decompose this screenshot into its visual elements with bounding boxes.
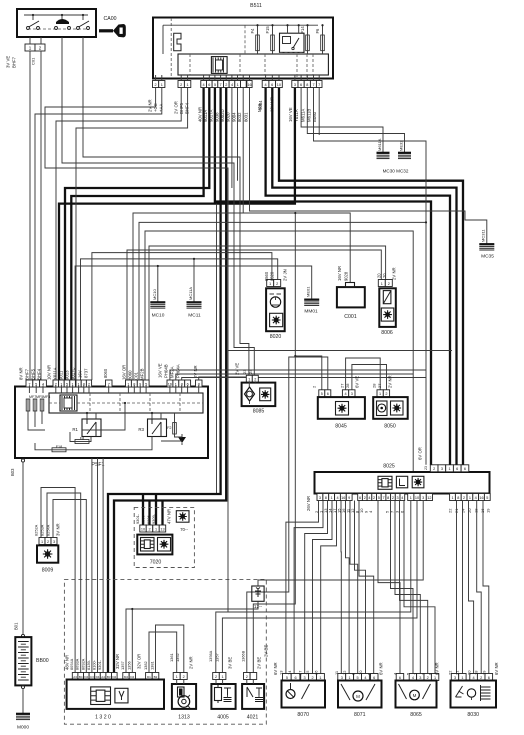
svg-text:9300-: 9300- (140, 513, 145, 524)
svg-text:1313: 1313 (178, 715, 190, 721)
svg-text:6V NR: 6V NR (273, 662, 278, 675)
svg-text:1: 1 (222, 675, 224, 679)
svg-text:8031: 8031 (243, 112, 248, 122)
svg-text:12: 12 (427, 496, 431, 500)
svg-text:M611A: M611A (377, 138, 382, 151)
svg-text:8054A: 8054A (69, 658, 74, 670)
svg-text:M000: M000 (17, 725, 29, 731)
svg-text:5: 5 (356, 676, 358, 680)
svg-text:2: 2 (246, 675, 248, 679)
svg-text:B01: B01 (14, 622, 19, 630)
svg-text:24: 24 (248, 369, 253, 374)
svg-text:1: 1 (434, 676, 436, 680)
svg-text:A4: A4 (101, 675, 105, 679)
svg-text:8050: 8050 (384, 424, 396, 430)
svg-text:70--: 70-- (180, 527, 188, 532)
svg-text:1: 1 (161, 83, 163, 87)
svg-text:2: 2 (463, 496, 465, 500)
svg-text:C01: C01 (31, 57, 36, 65)
svg-text:D4: D4 (96, 675, 100, 679)
svg-text:3: 3 (304, 676, 306, 680)
svg-text:1361: 1361 (169, 653, 174, 662)
svg-text:1: 1 (451, 496, 453, 500)
svg-text:B03: B03 (10, 468, 15, 476)
svg-text:3: 3 (441, 467, 443, 471)
svg-text:24: 24 (461, 508, 466, 513)
svg-text:9011: 9011 (59, 370, 64, 380)
svg-text:6: 6 (295, 676, 297, 680)
svg-text:3: 3 (422, 496, 424, 500)
svg-text:4: 4 (364, 676, 366, 680)
svg-text:2: 2 (480, 676, 482, 680)
svg-text:2V NR: 2V NR (148, 99, 153, 112)
svg-text:1: 1 (237, 83, 239, 87)
svg-text:27: 27 (340, 383, 345, 388)
svg-text:ME01: ME01 (306, 286, 311, 297)
svg-text:M: M (356, 694, 360, 699)
svg-text:8520: 8520 (270, 271, 275, 281)
svg-text:10: 10 (415, 496, 419, 500)
svg-text:16V NR: 16V NR (337, 266, 342, 281)
svg-text:8025: 8025 (383, 464, 395, 470)
svg-text:6: 6 (464, 467, 466, 471)
svg-text:2: 2 (364, 496, 366, 500)
svg-text:9306-: 9306- (146, 513, 151, 524)
svg-text:2V VE: 2V VE (235, 363, 240, 375)
svg-text:2V JN: 2V JN (283, 269, 288, 281)
svg-text:F2: F2 (167, 426, 171, 430)
svg-text:4: 4 (336, 496, 338, 500)
svg-text:19: 19 (486, 508, 491, 513)
svg-text:1: 1 (469, 496, 471, 500)
svg-text:8737: 8737 (84, 368, 89, 378)
svg-text:9013: 9013 (65, 370, 70, 380)
svg-text:1: 1 (269, 282, 271, 286)
svg-text:3V BE: 3V BE (228, 657, 233, 669)
svg-text:D2: D2 (112, 675, 116, 679)
svg-text:3: 3 (419, 676, 421, 680)
svg-text:3: 3 (351, 392, 353, 396)
svg-text:D4: D4 (130, 675, 134, 679)
svg-text:22: 22 (448, 670, 453, 675)
svg-text:BB00: BB00 (36, 658, 49, 664)
svg-text:9028: 9028 (344, 271, 349, 281)
svg-text:8253A: 8253A (40, 524, 45, 536)
svg-text:19: 19 (482, 670, 487, 675)
svg-text:6: 6 (373, 676, 375, 680)
svg-text:BHF7: BHF7 (25, 368, 30, 380)
svg-text:C01: C01 (134, 372, 139, 380)
svg-text:3: 3 (319, 496, 321, 500)
svg-text:1: 1 (449, 467, 451, 471)
svg-text:20: 20 (382, 273, 387, 278)
svg-text:1: 1 (187, 83, 189, 87)
svg-text:MM01: MM01 (304, 309, 318, 315)
svg-text:5: 5 (321, 392, 323, 396)
svg-text:MC35: MC35 (481, 254, 494, 260)
svg-text:B511: B511 (250, 3, 262, 9)
svg-text:4: 4 (475, 496, 477, 500)
svg-text:8009: 8009 (42, 568, 54, 574)
svg-text:8: 8 (306, 83, 308, 87)
svg-text:2: 2 (180, 83, 182, 87)
svg-text:2: 2 (385, 392, 387, 396)
svg-text:8071: 8071 (354, 712, 366, 718)
svg-text:3: 3 (341, 676, 343, 680)
svg-text:2: 2 (183, 675, 185, 679)
svg-text:C001: C001 (344, 314, 357, 320)
svg-text:23: 23 (424, 466, 428, 470)
svg-text:18: 18 (474, 670, 479, 675)
svg-text:9017C: 9017C (71, 367, 76, 380)
svg-text:1357: 1357 (120, 661, 125, 670)
svg-text:1: 1 (331, 496, 333, 500)
svg-text:2V BE: 2V BE (257, 657, 262, 669)
svg-text:8V NR: 8V NR (19, 367, 24, 380)
svg-text:1352: 1352 (175, 653, 180, 662)
svg-text:D1: D1 (147, 675, 151, 679)
svg-text:4: 4 (412, 676, 414, 680)
svg-text:13: 13 (279, 670, 284, 675)
svg-text:M4: M4 (124, 675, 128, 679)
svg-text:8060: 8060 (103, 368, 108, 378)
svg-text:7: 7 (220, 83, 222, 87)
svg-text:BHF7: BHF7 (12, 56, 17, 68)
svg-text:2: 2 (47, 540, 49, 544)
svg-text:8030: 8030 (467, 712, 479, 718)
svg-text:2V NR: 2V NR (193, 365, 198, 378)
svg-text:16V OR: 16V OR (122, 365, 127, 380)
svg-text:1: 1 (319, 676, 321, 680)
svg-text:7: 7 (312, 83, 314, 87)
svg-text:18: 18 (474, 508, 479, 513)
svg-text:1 3 2 0: 1 3 2 0 (95, 715, 111, 721)
svg-text:32V OR: 32V OR (137, 654, 142, 669)
svg-text:1357: 1357 (215, 653, 220, 662)
svg-text:5: 5 (486, 496, 488, 500)
svg-text:8252A: 8252A (34, 524, 39, 536)
svg-text:M: M (413, 693, 417, 698)
svg-text:7: 7 (382, 496, 384, 500)
svg-text:MC10: MC10 (152, 289, 157, 300)
svg-text:5: 5 (214, 83, 216, 87)
svg-text:6V NR: 6V NR (435, 662, 440, 675)
svg-text:6: 6 (327, 392, 329, 396)
svg-text:1381: 1381 (150, 661, 155, 670)
svg-text:F6: F6 (315, 28, 320, 34)
svg-text:MC311: MC311 (481, 229, 486, 242)
svg-text:2: 2 (427, 676, 429, 680)
svg-text:16: 16 (479, 496, 483, 500)
svg-text:17: 17 (297, 670, 302, 675)
svg-text:1382: 1382 (143, 661, 148, 670)
svg-text:27: 27 (377, 383, 382, 388)
svg-text:2: 2 (392, 496, 394, 500)
svg-text:8: 8 (325, 496, 327, 500)
svg-text:8020: 8020 (270, 334, 282, 340)
svg-text:2V NR: 2V NR (392, 267, 397, 280)
svg-text:2V NR: 2V NR (189, 656, 194, 669)
svg-text:2: 2 (433, 467, 435, 471)
svg-text:4: 4 (265, 83, 267, 87)
svg-text:B3: B3 (107, 675, 111, 679)
svg-text:B060: B060 (312, 111, 317, 122)
svg-text:2: 2 (311, 676, 313, 680)
svg-text:20: 20 (467, 670, 472, 675)
svg-text:6: 6 (456, 467, 458, 471)
svg-text:2: 2 (225, 83, 227, 87)
svg-text:1356: 1356 (126, 661, 131, 670)
svg-text:2: 2 (155, 83, 157, 87)
svg-text:4: 4 (344, 392, 346, 396)
svg-text:8560: 8560 (264, 271, 269, 281)
svg-text:Y011A: Y011A (53, 367, 58, 380)
svg-text:10: 10 (141, 527, 145, 531)
svg-text:CA00: CA00 (104, 16, 117, 22)
svg-text:8: 8 (387, 496, 389, 500)
svg-text:2V NR: 2V NR (388, 375, 393, 388)
svg-text:1: 1 (379, 392, 381, 396)
svg-text:MC30 MC32: MC30 MC32 (383, 169, 409, 174)
svg-text:13: 13 (160, 527, 164, 531)
svg-text:A3: A3 (73, 675, 77, 679)
svg-text:ME32: ME32 (399, 140, 404, 151)
svg-text:26V NR: 26V NR (306, 496, 311, 511)
svg-text:R3: R3 (138, 427, 144, 432)
svg-text:MF4: MF4 (43, 395, 50, 399)
svg-text:F4: F4 (250, 28, 255, 34)
svg-text:MC11: MC11 (188, 313, 201, 319)
svg-text:2: 2 (388, 282, 390, 286)
svg-text:3: 3 (53, 540, 55, 544)
svg-text:3V VE: 3V VE (6, 56, 11, 68)
svg-text:4005: 4005 (217, 715, 229, 721)
svg-text:8254A: 8254A (46, 524, 51, 536)
svg-text:2: 2 (148, 527, 150, 531)
svg-text:MC10: MC10 (152, 313, 165, 319)
svg-text:4: 4 (473, 676, 475, 680)
svg-text:10: 10 (358, 670, 363, 675)
svg-text:1356A: 1356A (208, 650, 213, 662)
svg-text:16: 16 (480, 508, 485, 513)
svg-text:8085: 8085 (253, 409, 265, 415)
svg-text:8045: 8045 (335, 424, 347, 430)
svg-text:16V VE: 16V VE (288, 107, 293, 122)
svg-text:6: 6 (359, 496, 361, 500)
svg-text:F8: F8 (80, 437, 84, 441)
svg-text:C3: C3 (90, 675, 94, 679)
svg-text:6: 6 (271, 83, 273, 87)
svg-text:1: 1 (176, 675, 178, 679)
svg-text:1: 1 (410, 496, 412, 500)
svg-text:9309-: 9309- (151, 513, 156, 524)
svg-text:4021: 4021 (247, 715, 259, 721)
svg-text:6V NR: 6V NR (379, 662, 384, 675)
svg-text:BHF5: BHF5 (179, 102, 184, 114)
svg-text:2: 2 (373, 496, 375, 500)
svg-text:2: 2 (254, 378, 256, 382)
svg-text:6: 6 (488, 676, 490, 680)
svg-text:MC11A: MC11A (188, 287, 193, 300)
svg-text:28: 28 (372, 383, 377, 388)
svg-text:16V VE: 16V VE (158, 363, 163, 378)
svg-text:4: 4 (401, 496, 403, 500)
svg-text:2: 2 (276, 282, 278, 286)
svg-text:1: 1 (41, 540, 43, 544)
svg-text:B4: B4 (79, 675, 83, 679)
svg-text:9301-: 9301- (135, 513, 140, 524)
svg-text:BHF4: BHF4 (37, 368, 42, 380)
svg-text:R1: R1 (72, 427, 78, 432)
svg-text:6: 6 (208, 83, 210, 87)
svg-text:10: 10 (277, 83, 281, 87)
svg-text:15: 15 (305, 670, 310, 675)
svg-text:6: 6 (399, 676, 401, 680)
svg-text:1366B: 1366B (241, 650, 246, 662)
svg-text:9: 9 (348, 496, 350, 500)
svg-text:20: 20 (467, 508, 472, 513)
svg-text:16: 16 (341, 496, 345, 500)
svg-text:5: 5 (286, 676, 288, 680)
svg-text:22: 22 (448, 508, 453, 513)
svg-text:+AA: +AA (159, 104, 164, 112)
svg-text:23: 23 (242, 369, 247, 374)
svg-text:12: 12 (342, 670, 347, 675)
svg-text:10V NR: 10V NR (47, 365, 52, 380)
svg-text:2V BE: 2V BE (264, 645, 269, 657)
svg-text:47V NR: 47V NR (167, 509, 172, 524)
svg-text:1: 1 (248, 378, 250, 382)
svg-text:1: 1 (461, 676, 463, 680)
svg-text:3: 3 (294, 83, 296, 87)
svg-text:21: 21 (455, 670, 460, 675)
svg-text:16V: 16V (78, 370, 83, 378)
svg-text:40V NR: 40V NR (197, 107, 202, 122)
svg-text:D4: D4 (84, 675, 88, 679)
svg-text:8: 8 (457, 496, 459, 500)
svg-text:14: 14 (287, 670, 292, 675)
svg-text:8065: 8065 (410, 712, 422, 718)
svg-text:3: 3 (397, 496, 399, 500)
svg-text:6V NR: 6V NR (494, 662, 499, 675)
svg-text:BHF5: BHF5 (31, 368, 36, 380)
svg-text:16: 16 (247, 83, 251, 87)
svg-text:8070: 8070 (297, 712, 309, 718)
svg-text:8006: 8006 (381, 330, 393, 336)
svg-text:16: 16 (313, 670, 318, 675)
svg-text:4: 4 (203, 83, 205, 87)
svg-text:6V VE: 6V VE (355, 376, 360, 388)
svg-text:PH04B: PH04B (164, 364, 169, 378)
svg-text:F15: F15 (265, 26, 270, 34)
svg-text:5: 5 (378, 496, 380, 500)
svg-text:20: 20 (377, 273, 382, 278)
svg-text:3: 3 (454, 676, 456, 680)
svg-text:4: 4 (368, 496, 370, 500)
svg-text:1: 1 (381, 282, 383, 286)
svg-text:6V OR: 6V OR (418, 447, 423, 460)
svg-text:3V NR: 3V NR (56, 523, 61, 536)
svg-text:4: 4 (231, 83, 233, 87)
svg-text:6: 6 (300, 83, 302, 87)
svg-text:2V OR: 2V OR (174, 101, 179, 114)
svg-text:1: 1 (349, 676, 351, 680)
svg-text:7020: 7020 (150, 560, 162, 566)
svg-text:8060: 8060 (128, 370, 133, 380)
svg-text:7: 7 (318, 83, 320, 87)
svg-text:2: 2 (215, 675, 217, 679)
svg-text:F18: F18 (56, 445, 63, 449)
svg-text:B2: B2 (154, 675, 158, 679)
svg-text:1: 1 (155, 527, 157, 531)
svg-text:F14: F14 (300, 26, 305, 34)
svg-text:MF2B: MF2B (140, 368, 145, 380)
svg-text:9004: 9004 (258, 100, 263, 110)
